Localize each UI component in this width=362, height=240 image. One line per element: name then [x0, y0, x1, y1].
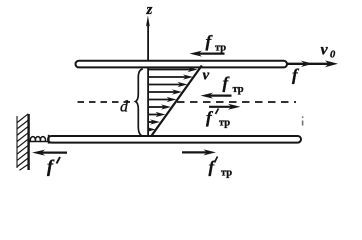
svg-text:f: f [206, 108, 214, 127]
svg-text:f: f [47, 156, 55, 176]
velocity profile arrow 9 (shortest) [148, 127, 156, 131]
stray mark (small i-like scan mark near right) [302, 116, 304, 125]
brace for gap d [136, 69, 144, 136]
velocity profile arrow 3 [149, 82, 188, 87]
svg-text:0: 0 [330, 50, 336, 61]
velocity profile arrow 4 [149, 89, 183, 94]
label v0 (velocity of top plate) [321, 42, 337, 61]
top plate (moving plate) [76, 61, 288, 68]
label f'_тр (mid layer friction) [206, 108, 230, 129]
spring (connects wall to bottom plate) [29, 135, 49, 144]
svg-text:тр: тр [233, 84, 244, 95]
velocity profile arrow 2 [149, 74, 194, 79]
svg-text:f: f [206, 32, 214, 51]
label f' (spring force) [47, 156, 60, 176]
bottom plate (fixed plate) [48, 136, 301, 143]
svg-text:f: f [292, 66, 300, 85]
label f_тр (friction on top plate, above plate) [206, 32, 227, 54]
velocity profile arrow 5 [149, 97, 177, 102]
axis z (vertical line with arrowhead, label z) [146, 2, 153, 137]
velocity profile arrow 8 [149, 119, 161, 124]
svg-text:тр: тр [221, 168, 232, 179]
svg-text:v: v [203, 68, 210, 84]
velocity profile arrow 7 [149, 112, 166, 117]
arrow f' (spring force, points left) [32, 150, 67, 156]
dashed mid-layer line [78, 101, 297, 103]
wall (hatched support at left) [17, 114, 29, 171]
svg-text:d: d [120, 99, 129, 116]
velocity profile arrow 1 (top, labelled v) [149, 67, 198, 72]
arrow f'_тр mid layer (points right, below dashed line) [209, 104, 241, 110]
arrow f_тр below plate (points left, above dashed line) [201, 93, 232, 99]
wire: pull arrow on top plate with heads (f and v0 arrows) [287, 60, 338, 67]
arrow f'_тр on bottom plate (points right) [182, 149, 216, 155]
svg-text:z: z [146, 2, 153, 18]
svg-text:v: v [321, 42, 329, 59]
svg-text:f: f [223, 74, 231, 93]
velocity profile arrow 6 [149, 104, 172, 109]
svg-text:тр: тр [219, 118, 230, 129]
label f'_тр (friction on bottom plate) [209, 157, 233, 179]
velocity profile: slanted envelope line [151, 66, 202, 137]
label f_тр (friction of fluid under plate) [223, 74, 244, 96]
arrow f_тр above top plate (points left) [190, 51, 225, 57]
svg-text:тр: тр [215, 43, 226, 54]
